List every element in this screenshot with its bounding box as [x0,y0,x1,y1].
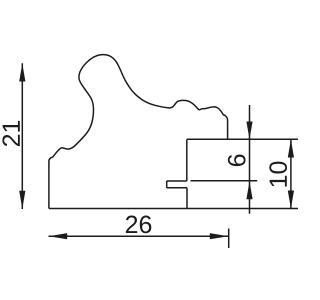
wire rabbet left vertical lower [186,188,188,209]
wire dimension line 26 [49,235,229,237]
node arrowhead 26 left [49,233,68,239]
wire rabbet left vertical upper [186,139,188,181]
node arrowhead 21 top [19,63,25,81]
wire dimension line 10 [290,139,292,208]
node label 21 [2,121,19,146]
node arrowhead 26 right [210,233,229,239]
node arrowhead 10 top pointing up [288,139,294,157]
wire dimension line 21 [21,63,23,209]
wire notch top [167,180,187,182]
wire extension tick 26 right [228,229,230,249]
node label 10 [269,162,287,187]
wire profile right edge / dim 6 line [249,105,251,214]
wire notch bottom [167,187,187,189]
wire profile bottom edge [49,208,298,210]
node arrowhead 6 top pointing down [246,122,252,140]
wire rabbet ledge top edge [187,138,298,140]
node arrowhead 21 bottom [19,191,25,209]
node arrowhead 10 bottom pointing down [288,191,294,209]
wire profile left edge [48,162,50,209]
wire rabbet seat line [191,180,258,182]
node label 6 [228,155,246,167]
node arrowhead 6 bottom pointing up [246,181,252,199]
node label 26 [126,216,151,234]
wire notch left [166,181,168,188]
wire decorative moulding curve [49,55,228,162]
